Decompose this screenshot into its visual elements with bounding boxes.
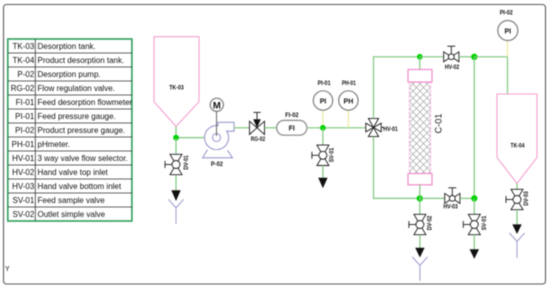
- svg-text:RG-02: RG-02: [11, 84, 35, 93]
- wire TK-03 outlet down to node A: [175, 126, 177, 137]
- node C junction (column top): [417, 54, 423, 60]
- svg-text:PI-01: PI-01: [15, 112, 35, 121]
- wire node C to column C-01 top: [419, 57, 421, 70]
- wire node B down to valve SV-01: [322, 128, 324, 146]
- svg-text:Feed sample valve: Feed sample valve: [38, 196, 106, 205]
- drain funnel below DV-01: [168, 199, 183, 223]
- wire column C-01 bottom to node F: [419, 185, 421, 199]
- pump P-02: [203, 111, 235, 168]
- wire HV-03 to node E: [460, 197, 474, 199]
- wire node D down to node E: [473, 57, 475, 199]
- node E junction: [471, 195, 477, 201]
- wire node E down to valve SV-01 outlet: [473, 198, 475, 214]
- svg-text:Desorption tank.: Desorption tank.: [38, 42, 96, 51]
- svg-text:PI-01: PI-01: [318, 80, 331, 87]
- svg-text:Feed desorption flowmeter: Feed desorption flowmeter: [38, 98, 133, 107]
- node B junction: [320, 125, 326, 131]
- motor M on pump P-02: [210, 98, 223, 111]
- svg-text:PH-01: PH-01: [342, 80, 356, 87]
- valve HV-02: [444, 46, 460, 71]
- legend table: [8, 39, 133, 221]
- wire RG-02 to flowmeter FI-02: [265, 127, 277, 129]
- node F junction (column bottom): [417, 195, 423, 201]
- gauge PI-01: [313, 80, 332, 110]
- drain funnel below DV-03: [509, 233, 524, 258]
- signal line PI-01: [322, 110, 324, 128]
- svg-text:PI-02: PI-02: [500, 10, 513, 17]
- svg-text:DV-02: DV-02: [426, 215, 433, 230]
- svg-text:3 way valve flow selector.: 3 way valve flow selector.: [38, 154, 128, 163]
- wire FI-02 to valve HV-01: [307, 127, 366, 129]
- svg-text:Hand valve top inlet: Hand valve top inlet: [38, 168, 109, 177]
- drain arrow below DV-02: [415, 248, 424, 258]
- wire HV-01 up and to column top node C: [374, 57, 420, 119]
- wire TK-04 outlet to valve DV-03: [516, 184, 518, 190]
- wire DV-01 to drain: [175, 175, 177, 191]
- svg-text:P-02: P-02: [211, 161, 223, 168]
- signal line PH-01: [347, 110, 349, 128]
- flowmeter FI-02: [277, 112, 307, 135]
- svg-text:HV-01: HV-01: [12, 154, 35, 163]
- svg-text:FI: FI: [289, 125, 295, 132]
- valve DV-03: [506, 189, 530, 209]
- sample point arrow bottom right: [470, 249, 479, 259]
- wire HV-02 to node D: [459, 56, 474, 58]
- svg-text:HV-03: HV-03: [443, 204, 458, 211]
- valve SV-01 (feed sample): [312, 145, 335, 165]
- svg-text:TK-04: TK-04: [13, 56, 35, 65]
- svg-text:Product desorption tank.: Product desorption tank.: [38, 56, 125, 65]
- tank TK-03: [154, 37, 199, 127]
- valve DV-01: [165, 154, 190, 174]
- svg-text:SV-02: SV-02: [13, 210, 35, 219]
- svg-text:pHmeter.: pHmeter.: [38, 140, 70, 149]
- wire SV-01 to sample point: [473, 235, 475, 250]
- svg-text:TK-03: TK-03: [169, 85, 184, 92]
- wire node F down to valve DV-02: [419, 198, 421, 214]
- pH meter PH-01: [339, 80, 358, 110]
- svg-text:P-02: P-02: [17, 70, 34, 79]
- svg-text:SV-01: SV-01: [481, 215, 488, 230]
- svg-text:TK-04: TK-04: [511, 143, 525, 150]
- svg-text:DV-03: DV-03: [523, 191, 530, 206]
- drain arrow below DV-03: [512, 224, 521, 234]
- node D junction: [471, 54, 477, 60]
- wire feed drop into TK-04: [507, 57, 509, 109]
- wire HV-01 down and to column bottom node F: [374, 137, 420, 199]
- wire node C to valve HV-02: [420, 56, 444, 58]
- 3-way valve HV-01: [366, 118, 398, 136]
- svg-text:Outlet simple valve: Outlet simple valve: [38, 210, 106, 219]
- svg-text:DV-01: DV-01: [183, 155, 190, 170]
- svg-text:M: M: [213, 100, 221, 111]
- svg-text:HV-02: HV-02: [12, 168, 35, 177]
- svg-text:Hand valve bottom inlet: Hand valve bottom inlet: [38, 182, 122, 191]
- gauge PI-02: [498, 10, 518, 41]
- svg-text:RG-02: RG-02: [251, 136, 266, 143]
- svg-text:Flow regulation valve.: Flow regulation valve.: [38, 84, 115, 93]
- svg-text:PI: PI: [504, 28, 511, 35]
- wire pump discharge to valve RG-02: [234, 127, 250, 129]
- svg-text:C-01: C-01: [434, 114, 444, 134]
- valve DV-02: [409, 214, 433, 234]
- svg-text:HV-03: HV-03: [12, 182, 35, 191]
- svg-text:PH-01: PH-01: [12, 140, 35, 149]
- svg-text:SV-01: SV-01: [13, 196, 35, 205]
- svg-text:Desorption pump.: Desorption pump.: [38, 70, 101, 79]
- svg-text:Product pressure gauge.: Product pressure gauge.: [38, 126, 126, 135]
- drain arrow below DV-01: [171, 190, 180, 201]
- svg-text:SV-01: SV-01: [328, 147, 335, 162]
- node A junction: [173, 135, 179, 141]
- svg-text:TK-03: TK-03: [13, 42, 35, 51]
- svg-text:HV-02: HV-02: [445, 64, 460, 71]
- wire node A to pump P-02 suction: [176, 137, 206, 139]
- svg-text:PH: PH: [344, 98, 354, 105]
- feed arrow inside TK-04: [503, 110, 511, 121]
- wire SV-01 to sample point: [322, 166, 324, 179]
- wire node F to valve HV-03: [420, 197, 445, 199]
- valve RG-02: [250, 112, 266, 143]
- svg-text:Y: Y: [5, 266, 10, 273]
- valve SV-01 (outlet sample): [463, 214, 488, 234]
- valve HV-03: [443, 188, 460, 211]
- svg-text:FI-01: FI-01: [16, 98, 35, 107]
- wire node D to TK-04 feed corner: [474, 56, 507, 58]
- wire DV-02 to drain: [419, 235, 421, 249]
- svg-text:PI: PI: [320, 98, 327, 105]
- svg-text:FI-02: FI-02: [285, 112, 299, 119]
- drain funnel below DV-02: [412, 257, 427, 281]
- wire DV-03 to drain: [516, 210, 518, 225]
- svg-text:PI-02: PI-02: [15, 126, 35, 135]
- wire node A down to valve DV-01: [175, 138, 177, 155]
- svg-text:HV-01: HV-01: [383, 126, 398, 133]
- column C-01: [408, 70, 444, 185]
- tank TK-04: [497, 94, 537, 184]
- sample point arrow below SV-01: [318, 178, 327, 189]
- signal line PI-02: [507, 41, 509, 57]
- svg-text:Feed pressure gauge.: Feed pressure gauge.: [38, 112, 116, 121]
